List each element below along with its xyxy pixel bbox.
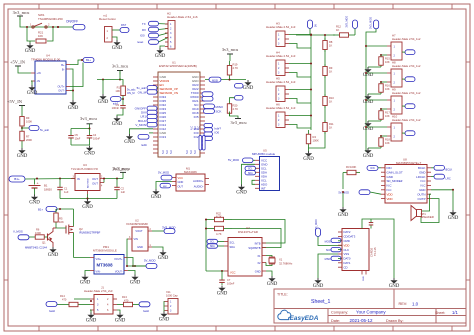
svg-text:10uF: 10uF [75, 137, 81, 140]
svg-text:4.7K: 4.7K [233, 107, 239, 111]
svg-text:GND: GND [115, 319, 126, 324]
net flag SCL (MPU) [245, 166, 256, 170]
svg-text:N.C: N.C [191, 126, 194, 130]
resistor R20 4.7K [229, 101, 231, 104]
net flag B1+ (battery) [9, 176, 25, 182]
svg-text:REV:: REV: [399, 302, 408, 306]
svg-text:ADJ/GND: ADJ/GND [87, 178, 90, 188]
capacitor C3 100nF [122, 104, 124, 106]
svg-text:100nF: 100nF [227, 282, 235, 286]
svg-text:1uF: 1uF [64, 190, 69, 194]
svg-text:N.C: N.C [186, 150, 189, 154]
wire VDD flag [370, 192, 381, 194]
net flag backlight (left) [46, 302, 57, 307]
connector CARD2 TF-115 [342, 229, 369, 271]
ground (SD right) [393, 278, 395, 280]
svg-text:AUDIO-: AUDIO- [194, 184, 204, 188]
svg-text:X11: X11 [166, 290, 171, 294]
svg-text:IO13: IO13 [160, 135, 167, 139]
svg-text:MISO: MISO [216, 105, 224, 109]
svg-text:R13: R13 [122, 295, 127, 299]
wire switch rail [20, 20, 58, 27]
svg-text:INTB: INTB [255, 241, 261, 245]
svg-text:RST: RST [121, 23, 127, 27]
svg-text:MT3608: MT3608 [96, 263, 113, 268]
resistor R7 200K [21, 128, 23, 131]
wires RTC pullups [205, 220, 207, 272]
svg-text:4.7K: 4.7K [233, 66, 239, 70]
svg-text:IRLM5602TRPBF: IRLM5602TRPBF [79, 231, 101, 235]
wire H8 pin1 to rail [366, 72, 387, 74]
net flag (H9 signal) [381, 108, 387, 110]
svg-text:SD_MODE#: SD_MODE# [387, 179, 403, 183]
svg-text:CD: CD [344, 265, 348, 269]
svg-text:R5: R5 [59, 217, 63, 221]
resistor R9 100K [21, 115, 23, 117]
svg-text:Sheet_1: Sheet_1 [311, 299, 330, 305]
svg-text:Header-Male 2.54_1x2: Header-Male 2.54_1x2 [392, 37, 421, 41]
svg-text:5v_adc: 5v_adc [40, 128, 50, 132]
svg-text:R15: R15 [385, 56, 390, 60]
svg-text:DAT1: DAT1 [344, 261, 351, 265]
svg-text:R1: R1 [117, 86, 121, 90]
svg-text:3V3_MOD: 3V3_MOD [346, 16, 349, 28]
svg-text:DAT0: DAT0 [344, 257, 351, 261]
svg-text:N.C: N.C [166, 150, 169, 154]
svg-text:1uF: 1uF [121, 190, 126, 194]
net flag LRC (U8) [431, 176, 434, 178]
svg-text:GND: GND [158, 256, 169, 261]
svg-text:GND: GND [80, 281, 91, 286]
svg-text:IO5: IO5 [194, 115, 199, 119]
title block [274, 289, 466, 323]
svg-text:C1: C1 [64, 186, 68, 190]
resistor R8 1K [324, 38, 326, 41]
svg-text:GND: GND [82, 205, 93, 210]
svg-text:100K: 100K [35, 231, 41, 235]
capacitor C1 1uF [59, 179, 61, 188]
svg-text:C2: C2 [121, 186, 125, 190]
svg-text:B-: B- [62, 68, 65, 72]
ground (Vin-) [85, 271, 90, 275]
svg-text:CMD: CMD [344, 239, 350, 243]
svg-text:ESP32-WROVER-E(16MB): ESP32-WROVER-E(16MB) [159, 64, 197, 68]
wires to H2 [159, 23, 169, 25]
net flag MOSI (GND pins wire) [205, 79, 246, 81]
svg-text:SDA: SDA [248, 172, 253, 175]
svg-text:GND: GND [159, 318, 170, 323]
svg-text:B1+: B1+ [86, 58, 91, 62]
svg-text:10K: 10K [115, 89, 120, 93]
svg-text:XC6206P332MR: XC6206P332MR [126, 222, 148, 226]
svg-text:DIN: DIN [371, 168, 375, 170]
wire cap rail [71, 128, 90, 130]
resistor R10 1K [324, 94, 326, 97]
svg-text:GND: GND [243, 86, 254, 91]
net flag SDA (MPU) [245, 171, 256, 175]
svg-text:GND: GND [387, 175, 393, 179]
svg-text:GND: GND [84, 152, 95, 157]
svg-text:V_MON: V_MON [135, 123, 146, 127]
capacitor C7 100nF (RTC) [221, 271, 223, 278]
svg-text:IO2: IO2 [194, 135, 199, 139]
svg-text:Your Company: Your Company [356, 310, 386, 315]
svg-text:470: 470 [62, 298, 67, 302]
svg-text:SDA: SDA [210, 245, 215, 248]
svg-text:N.C: N.C [387, 184, 392, 188]
net flag B1+ (TP4056 B+) [70, 60, 83, 65]
svg-text:GND: GND [389, 284, 400, 289]
svg-text:SDA: SDA [230, 245, 236, 249]
wire Q1 collector to Q2 gate [56, 226, 66, 228]
svg-text:1000 Cap: 1000 Cap [166, 293, 178, 297]
svg-text:Company:: Company: [331, 310, 348, 314]
svg-text:GND: GND [155, 54, 166, 59]
svg-text:CD/DAT3: CD/DAT3 [344, 235, 356, 239]
svg-text:R6: R6 [36, 227, 40, 231]
wire U2 VIN to 5V_MOD [127, 239, 146, 266]
top rail with R12 [296, 34, 335, 36]
net flag (IO2 pin) [204, 136, 213, 140]
svg-text:N.C: N.C [198, 126, 201, 130]
svg-text:10K: 10K [385, 87, 390, 91]
vertical net labels (bottom right pins) [199, 136, 202, 151]
svg-text:OUTN: OUTN [417, 192, 425, 196]
net flag 5v_adc (divider tap) [21, 127, 23, 129]
svg-text:SPEAKER: SPEAKER [421, 215, 434, 219]
ground (C3) [117, 110, 123, 116]
svg-text:1K: 1K [329, 125, 332, 129]
svg-text:+5V_IN: +5V_IN [7, 99, 23, 104]
svg-text:Header-Male 2.54_1x2: Header-Male 2.54_1x2 [392, 91, 421, 95]
svg-text:3v3_mcu: 3v3_mcu [113, 166, 130, 171]
svg-text:GND: GND [29, 201, 40, 206]
svg-text:X1: X1 [257, 254, 261, 258]
svg-text:1K: 1K [329, 99, 332, 103]
svg-text:GND: GND [338, 213, 349, 218]
svg-text:BCLK: BCLK [418, 166, 426, 170]
svg-text:MMBT5401-C2144: MMBT5401-C2144 [25, 246, 47, 250]
svg-text:VDD: VDD [387, 197, 393, 201]
svg-text:GND: GND [255, 269, 261, 273]
svg-text:100nF: 100nF [93, 137, 101, 140]
resistor R18 10K [380, 136, 382, 138]
svg-text:SCL: SCL [230, 241, 236, 245]
ground (Q1 emitter) [52, 247, 54, 249]
svg-text:2021-05-12: 2021-05-12 [350, 318, 374, 323]
svg-text:5V_MOD: 5V_MOD [144, 258, 156, 262]
svg-text:B1+: B1+ [38, 207, 43, 211]
resistor R4 100K [310, 120, 312, 130]
svg-text:MIC: MIC [163, 186, 167, 188]
wire H10 pin1 to rail [366, 126, 387, 128]
svg-text:GND: GND [419, 188, 425, 192]
wire U8 GND to ground [431, 190, 453, 210]
wire OUT+ to B1+ [70, 63, 83, 87]
svg-text:N.C: N.C [190, 150, 193, 154]
ground (rail) [102, 80, 104, 95]
svg-text:Header-Male 2.54_1x3: Header-Male 2.54_1x3 [266, 25, 296, 29]
svg-text:5V_MOD: 5V_MOD [228, 158, 239, 162]
net flag SDA (RTC) [207, 244, 218, 248]
svg-text:18650: 18650 [44, 187, 52, 191]
svg-text:GND: GND [124, 140, 135, 145]
svg-text:GND: GND [363, 276, 365, 281]
svg-text:1/1: 1/1 [452, 310, 458, 315]
svg-text:ledlit: ledlit [141, 143, 147, 147]
ground (H8) [368, 93, 381, 95]
speaker SP1 SPEAKER [411, 206, 417, 221]
svg-text:backl: backl [143, 310, 149, 313]
svg-text:3v3_mcu: 3v3_mcu [112, 64, 129, 69]
ground (mic) [156, 182, 172, 190]
wires U8 outputs to speaker [422, 194, 432, 211]
svg-text:3v3_mcu: 3v3_mcu [13, 10, 30, 15]
resistor R9b 1K [324, 64, 326, 67]
svg-text:VSS: VSS [344, 252, 350, 256]
net flag DIN [367, 166, 378, 171]
svg-text:OUT-: OUT- [58, 89, 64, 93]
power flag 3v3_mcu (top-left) [17, 15, 23, 17]
svg-text:100K: 100K [350, 165, 356, 169]
svg-text:VIN-: VIN- [96, 271, 101, 274]
svg-text:Header-Male 2.54_1x2: Header-Male 2.54_1x2 [392, 118, 421, 122]
ground (header pulldowns) [308, 148, 310, 151]
svg-text:DS1337S+T&R: DS1337S+T&R [238, 230, 258, 234]
ground (TP4056 -IN) [31, 81, 32, 85]
svg-text:Reset button: Reset button [99, 17, 116, 21]
net flag (H10 signal) [381, 135, 387, 137]
wires Vout [128, 258, 146, 267]
svg-text:OUT: OUT [92, 177, 98, 181]
svg-text:GND: GND [313, 284, 324, 289]
svg-text:GND: GND [419, 170, 425, 174]
svg-text:OUT: OUT [178, 184, 184, 188]
svg-text:10K: 10K [38, 34, 43, 38]
ground (TP4056 OUT-) [72, 100, 74, 102]
battery B1 18650 [34, 179, 36, 185]
net flag SCK [204, 109, 215, 114]
ground (RTC) [266, 271, 272, 276]
svg-text:DIN: DIN [387, 166, 392, 170]
svg-text:R16: R16 [385, 83, 390, 87]
wire VSS to ground [318, 254, 338, 278]
net flag TX2 (TXD0) [202, 92, 213, 97]
net flag IO0 (right) [204, 132, 213, 136]
svg-text:VIN: VIN [134, 237, 138, 241]
svg-text:X2: X2 [257, 261, 261, 265]
transistor Q2 IRLML6402 (PMOS) [73, 209, 75, 227]
svg-text:IO0: IO0 [215, 131, 220, 135]
ground (R3) [342, 207, 344, 209]
svg-text:3v3_mcu: 3v3_mcu [80, 116, 97, 121]
svg-text:MOSI: MOSI [325, 240, 332, 243]
svg-text:GND: GND [86, 319, 97, 324]
wires TP4056 out [70, 69, 73, 100]
svg-text:GND: GND [25, 49, 36, 54]
svg-text:100K: 100K [26, 119, 32, 123]
svg-text:SCL: SCL [210, 242, 215, 244]
net flag (node) [122, 96, 124, 104]
ground (SD VSS) [317, 278, 319, 280]
svg-text:SCK: SCK [216, 110, 222, 114]
svg-text:N.C: N.C [170, 150, 173, 154]
svg-text:OUT+: OUT+ [58, 85, 65, 89]
ground (C7) [221, 286, 223, 288]
svg-text:MPU6050 module: MPU6050 module [252, 152, 276, 156]
wire SD top to right rail [362, 219, 394, 278]
svg-text:Q1: Q1 [42, 241, 46, 245]
net flag SCL (RTC) [207, 239, 218, 243]
net flag BCLK (U8) [431, 167, 434, 169]
resistor R23 4.7K (pullup b) [206, 228, 215, 230]
ground (H9) [368, 120, 381, 122]
net flag RX2 (RXD0) [202, 96, 213, 101]
svg-text:R20: R20 [233, 103, 238, 107]
svg-text:10K: 10K [59, 220, 64, 224]
svg-text:ON_M: ON_M [127, 91, 135, 95]
ground (U8) [452, 210, 454, 212]
svg-text:OUT: OUT [92, 181, 98, 185]
svg-text:R18: R18 [385, 137, 390, 141]
svg-text:GND: GND [303, 157, 314, 162]
svg-text:1K: 1K [329, 43, 332, 47]
net flag MIC [160, 183, 171, 188]
svg-text:TLV1117LV33DCYR: TLV1117LV33DCYR [71, 167, 99, 171]
wire H7 pin1 to rail [366, 45, 387, 47]
net flag MISO [204, 104, 215, 109]
svg-text:GAIN_SLOT: GAIN_SLOT [387, 170, 403, 174]
svg-text:Date:: Date: [331, 319, 340, 323]
svg-text:N.C: N.C [421, 184, 426, 188]
svg-text:GND: GND [267, 282, 278, 287]
svg-text:VCC: VCC [230, 270, 236, 274]
svg-text:GND: GND [137, 245, 143, 249]
svg-text:100nF: 100nF [112, 106, 120, 110]
resistor column wires [324, 35, 326, 132]
svg-text:VDD: VDD [387, 192, 393, 196]
svg-text:10K: 10K [385, 141, 390, 145]
ground (J1 pin5) [90, 310, 91, 313]
svg-text:10K: 10K [385, 114, 390, 118]
svg-text:Header-Male 2.54_1x3: Header-Male 2.54_1x3 [266, 54, 296, 58]
svg-text:reset: reset [137, 40, 143, 44]
svg-text:R8: R8 [329, 40, 333, 44]
ground (X11) [163, 312, 165, 314]
svg-text:OUTP: OUTP [417, 197, 425, 201]
svg-text:CLK: CLK [344, 248, 350, 252]
svg-text:Sheet:: Sheet: [435, 311, 445, 315]
svg-text:R11: R11 [329, 122, 334, 126]
capacitor C2 1uF [116, 179, 118, 188]
wire into J1 pin1 [74, 298, 90, 300]
svg-text:Header-Male 2.54_1x6: Header-Male 2.54_1x6 [167, 15, 198, 19]
svg-text:R19: R19 [233, 62, 238, 66]
svg-text:V_MOS: V_MOS [13, 230, 23, 234]
wire Q2 to Vin+ [74, 257, 91, 259]
capacitor C6 100nF (SD) [370, 219, 372, 223]
svg-text:100K: 100K [313, 138, 319, 142]
svg-text:MISO: MISO [325, 258, 331, 261]
svg-text:3v3_mcu: 3v3_mcu [231, 120, 248, 125]
svg-text:INT: INT [261, 187, 266, 191]
ground (divider) [21, 144, 23, 148]
wires U3 output [104, 178, 123, 180]
svg-text:C3: C3 [116, 103, 120, 107]
wire H9 pin1 to rail [366, 99, 387, 101]
svg-text:GND: GND [448, 216, 459, 221]
power flag 3v3_mcu (R1 chain) [117, 70, 123, 72]
svg-text:+IN: +IN [37, 71, 41, 75]
svg-text:GND: GND [363, 100, 374, 105]
svg-text:IN: IN [77, 177, 80, 181]
net flag (H8 signal) [381, 81, 387, 83]
svg-text:TSA065G00D-250: TSA065G00D-250 [38, 17, 63, 21]
svg-text:ON/OFF: ON/OFF [66, 20, 78, 24]
svg-text:VIN+: VIN+ [96, 258, 102, 261]
svg-text:TX: TX [142, 22, 146, 26]
svg-text:GND: GND [112, 46, 123, 51]
ground (pull) [247, 80, 249, 82]
svg-text:GND: GND [363, 154, 374, 159]
svg-text:1K: 1K [329, 69, 332, 73]
resistor R16 10K [380, 82, 382, 84]
power flag 3v3_mcu (mid, below R20) [230, 112, 239, 119]
net flag lrdir [204, 128, 213, 132]
svg-text:3V3_MOD: 3V3_MOD [369, 17, 373, 29]
svg-text:GND: GND [48, 253, 59, 258]
svg-text:AUDIO+: AUDIO+ [193, 179, 204, 183]
ground (caps) [71, 144, 90, 146]
svg-text:Drawn By:: Drawn By: [386, 319, 404, 323]
svg-text:Header-Male 2.54_1x3: Header-Male 2.54_1x3 [266, 80, 296, 84]
svg-text:DAT2: DAT2 [344, 230, 351, 234]
svg-text:5V_MOD: 5V_MOD [158, 170, 169, 174]
svg-text:N.C: N.C [194, 126, 197, 130]
ground (battery) [34, 188, 36, 195]
svg-text:R9: R9 [26, 116, 30, 120]
svg-text:-IN: -IN [37, 79, 41, 83]
SD bottom pin stubs [361, 271, 363, 275]
svg-text:LRC: LRC [446, 176, 451, 180]
svg-text:3v3_mcu: 3v3_mcu [222, 47, 239, 52]
svg-text:ON_M: ON_M [138, 90, 147, 94]
transistor Q1 MMBT5401 (PNP) [47, 234, 49, 241]
svg-text:IO0: IO0 [140, 34, 145, 38]
ground (switch) [29, 41, 31, 43]
capacitor C5 10uF [70, 129, 72, 136]
net flag ledlit (IO13) [149, 132, 153, 134]
svg-text:VCC: VCC [178, 176, 184, 180]
wire VCC [206, 270, 224, 272]
wire R21 loop [27, 27, 35, 41]
capacitor C4 100nF [89, 129, 91, 136]
svg-text:R4: R4 [313, 135, 317, 139]
net flag (IO17 pin) [204, 123, 213, 127]
svg-text:10K: 10K [385, 60, 390, 64]
net flag (H7 signal) [381, 54, 387, 56]
ground (U2) [152, 247, 163, 250]
svg-text:5V: 5V [315, 24, 318, 27]
svg-text:4.7K: 4.7K [216, 232, 222, 236]
svg-text:X1: X1 [279, 258, 283, 262]
svg-text:+5V_IN: +5V_IN [10, 59, 26, 64]
svg-text:GND: GND [68, 106, 79, 111]
ground (H2) [160, 46, 165, 48]
svg-text:R12: R12 [336, 25, 341, 29]
resistor R15 10K [380, 55, 382, 57]
svg-text:SQWINTB: SQWINTB [248, 246, 260, 250]
